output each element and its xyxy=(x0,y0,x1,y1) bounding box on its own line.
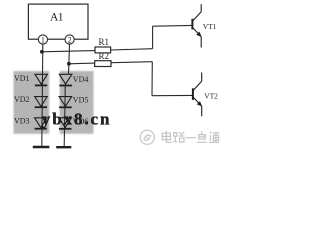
diode VD2 xyxy=(35,97,48,108)
diode VD1 xyxy=(35,74,48,85)
resistor R2 xyxy=(95,51,111,67)
resistor R1 xyxy=(95,37,111,53)
wire: node to VD4 top xyxy=(68,64,70,75)
wire: horizontal to VT1 base xyxy=(153,24,192,27)
transistor VT1 xyxy=(192,4,201,47)
svg-text:VD1: VD1 xyxy=(14,74,30,83)
wire: right diode column down to ground xyxy=(64,85,65,147)
transistor VT2 xyxy=(193,73,202,117)
watermark logo (电路一点通 badge) xyxy=(140,130,154,144)
wire: node under terminal 1 to R1 xyxy=(42,51,95,52)
svg-text:2: 2 xyxy=(68,36,72,45)
svg-text:R1: R1 xyxy=(99,37,110,47)
char 通 xyxy=(209,132,219,143)
svg-text:VD2: VD2 xyxy=(14,95,30,104)
diode VD4 xyxy=(59,74,72,85)
wire: node under terminal 2 to R2 xyxy=(69,62,95,65)
wire: terminal 2 down to node xyxy=(68,44,71,64)
svg-text:VT1: VT1 xyxy=(203,22,217,31)
diode VD5 xyxy=(59,97,72,108)
char 路 xyxy=(173,132,184,142)
svg-text:VT2: VT2 xyxy=(204,92,218,101)
svg-text:ybx8.cn: ybx8.cn xyxy=(42,110,112,129)
char 一 xyxy=(185,137,195,139)
junction node under terminal 1 xyxy=(40,50,44,54)
wire: R1 to corner xyxy=(111,49,153,50)
svg-text:1: 1 xyxy=(41,36,45,45)
svg-text:VD4: VD4 xyxy=(73,75,89,84)
ground (right column) xyxy=(56,146,71,148)
char 点 xyxy=(197,131,207,142)
wire: vertical down to VT2 base level xyxy=(151,62,153,96)
wire: R2 to corner xyxy=(111,62,152,63)
box A1 xyxy=(28,4,88,39)
junction node under terminal 2 xyxy=(67,62,71,66)
svg-text:VD5: VD5 xyxy=(73,96,89,105)
char 电 xyxy=(162,131,171,143)
shaded module box right (VD4-VD6 group) xyxy=(60,71,94,134)
svg-text:VD3: VD3 xyxy=(14,117,30,126)
terminal 1 (circled pin 1 of A1) xyxy=(38,35,47,45)
terminal 2 (circled pin 2 of A1) xyxy=(65,35,74,45)
ground (left column) xyxy=(33,146,50,148)
svg-text:R2: R2 xyxy=(99,51,110,61)
diode VD3 xyxy=(35,118,48,129)
diode VD6 xyxy=(59,118,72,129)
watermark text 电路一点通 xyxy=(162,131,219,143)
wire: horizontal to VT2 base xyxy=(152,94,192,96)
wire: terminal 1 down through diode column to ground xyxy=(42,44,43,146)
wire: vertical up to VT1 base level xyxy=(152,26,154,49)
svg-text:A1: A1 xyxy=(50,12,64,24)
shaded module box left (VD1-VD3 group) xyxy=(14,71,50,134)
